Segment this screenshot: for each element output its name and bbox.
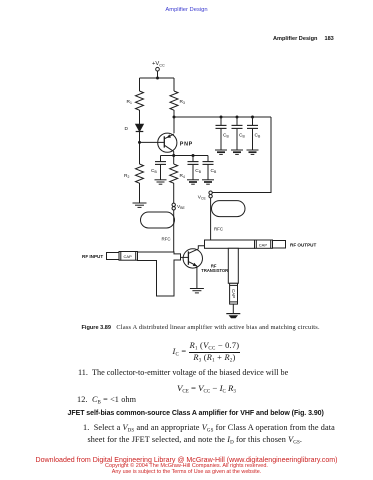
ground CB2 — [187, 180, 199, 184]
wire to R3 — [173, 78, 175, 91]
capacitor CB3 — [203, 156, 214, 180]
svg-text:R2: R2 — [124, 173, 129, 179]
resistor R2 — [136, 164, 144, 183]
ground CB3 — [202, 180, 214, 184]
node cap1 — [220, 116, 223, 119]
wire VCE to output strip — [210, 198, 212, 240]
svg-text:CB: CB — [195, 168, 201, 174]
svg-text:VCE: VCE — [198, 194, 207, 200]
wire shunt cap to ground — [232, 304, 234, 313]
figure caption — [82, 324, 320, 331]
ground CB1 — [155, 180, 167, 184]
wire emitter to ground — [196, 266, 198, 289]
resistor R3 — [170, 91, 178, 110]
svg-text:RF OUTPUT: RF OUTPUT — [290, 242, 316, 247]
inductor RFC right — [212, 201, 246, 217]
VBE terminal circles — [172, 203, 175, 210]
microstrip input tee and stub — [138, 252, 181, 296]
node VCC split — [156, 77, 159, 80]
microstrip output stub — [228, 248, 238, 283]
svg-text:CB: CB — [239, 133, 245, 139]
node cap3 — [251, 116, 254, 119]
capacitor CB2 — [188, 156, 199, 180]
equation VCE — [177, 383, 236, 394]
resistor R1 — [136, 91, 144, 110]
node collector — [172, 154, 175, 157]
ground CB top3 — [247, 150, 259, 154]
wire collector to output strip — [198, 246, 204, 249]
svg-text:TRANSISTOR: TRANSISTOR — [201, 268, 228, 273]
capacitor CAP shunt block — [230, 283, 238, 304]
svg-text:CB: CB — [223, 133, 229, 139]
svg-text:CB: CB — [255, 133, 261, 139]
node base junction — [138, 141, 141, 144]
wire base — [140, 141, 165, 143]
svg-text:D: D — [125, 126, 129, 132]
inductor RFC left — [141, 212, 175, 228]
svg-text:PNP: PNP — [180, 142, 193, 148]
node lower capA — [192, 154, 195, 157]
resistor R4 — [170, 156, 178, 204]
diode D — [136, 124, 144, 131]
wire PNP emitter — [173, 117, 175, 133]
capacitor CAP input block — [119, 252, 138, 261]
svg-text:CB: CB — [211, 168, 217, 174]
svg-text:RFC: RFC — [162, 237, 171, 242]
item 11 — [78, 368, 288, 377]
capacitor CB top3 — [247, 117, 258, 150]
microstrip output line — [205, 240, 255, 248]
wire top rail — [140, 77, 175, 79]
svg-text:RF INPUT: RF INPUT — [82, 254, 103, 259]
svg-text:CAP: CAP — [231, 289, 236, 298]
wire R1 to diode — [139, 110, 141, 124]
node R3 bottom — [173, 116, 176, 119]
svg-text:R1: R1 — [127, 99, 132, 105]
running head — [273, 36, 334, 42]
svg-text:RFC: RFC — [214, 226, 223, 231]
wire collector down — [173, 151, 175, 155]
svg-text:VBE: VBE — [177, 204, 185, 210]
ground CB top1 — [215, 150, 227, 154]
node cap2 — [236, 116, 239, 119]
svg-text:CAP: CAP — [259, 242, 268, 247]
footer — [0, 457, 373, 475]
wire diode to R2 — [139, 132, 141, 165]
capacitor CB1 — [155, 156, 166, 180]
label RF TRANSISTOR — [201, 263, 228, 273]
transistor Q2 RF — [181, 249, 203, 268]
wire R2 to ground — [139, 183, 141, 203]
VCE terminal circles — [209, 191, 212, 198]
capacitor CB top1 — [216, 117, 227, 150]
capacitor CB top2 — [232, 117, 243, 150]
ground under R2 — [133, 203, 147, 207]
svg-text:CAP: CAP — [124, 254, 133, 259]
svg-text:R3: R3 — [180, 99, 185, 105]
wire rail right down to VCE — [212, 117, 271, 193]
microstrip output end line — [273, 241, 286, 249]
ground CB top2 — [231, 150, 243, 154]
ground emitter — [190, 289, 204, 293]
wire VBE to input strip — [173, 210, 175, 252]
section heading — [68, 410, 324, 417]
wire R3 to node — [173, 110, 175, 117]
svg-text:+VCC: +VCC — [152, 61, 165, 67]
wire VCC down — [157, 71, 159, 78]
transistor Q1 PNP — [158, 133, 177, 152]
microstrip input line — [107, 253, 120, 260]
equation IC — [173, 341, 241, 364]
item 1 — [83, 424, 335, 447]
svg-text:CB: CB — [151, 168, 157, 174]
wire bypass rail top — [174, 116, 271, 118]
top navigation link — [0, 7, 373, 13]
capacitor CAP output block — [255, 240, 273, 248]
wire to R1 — [139, 78, 141, 91]
ground shunt cap — [226, 314, 240, 319]
item 12 — [77, 395, 136, 405]
wire lower rail — [161, 155, 209, 157]
+VCC terminal — [156, 67, 160, 71]
svg-text:R4: R4 — [180, 173, 185, 179]
